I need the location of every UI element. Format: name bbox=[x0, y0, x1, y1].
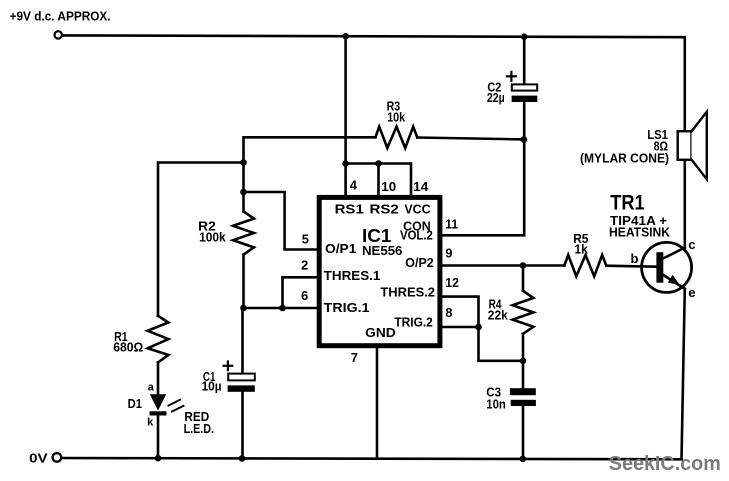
svg-text:4: 4 bbox=[350, 178, 358, 193]
IC labels bbox=[324, 202, 435, 340]
wire pin 9 to R5 bbox=[443, 264, 565, 267]
wire top rail bbox=[63, 35, 685, 131]
IC U1 body bbox=[319, 197, 440, 345]
label R3 bbox=[387, 99, 406, 125]
wire to left column bbox=[158, 163, 244, 316]
transistor TR1 bbox=[642, 242, 692, 292]
svg-text:k: k bbox=[147, 417, 154, 429]
wire C2 bottom to pin 11 bbox=[443, 102, 524, 235]
capacitor C1 bbox=[228, 374, 255, 381]
wire pin 12 branch bbox=[443, 297, 479, 327]
svg-text:D1: D1 bbox=[128, 396, 142, 411]
node supply bus at pin 10 bbox=[375, 160, 382, 167]
node pin9/R4 junction bbox=[520, 262, 527, 269]
wire pin 6 bbox=[244, 307, 319, 310]
wire R3 left and branch column bbox=[244, 137, 376, 211]
wire C3 top lead bbox=[522, 361, 525, 388]
wire C2 top lead bbox=[523, 37, 526, 85]
capacitor C2 bbox=[512, 84, 537, 90]
node R4/C3 junction bbox=[520, 358, 527, 365]
label R4 bbox=[488, 297, 509, 323]
svg-text:a: a bbox=[148, 381, 155, 393]
LED light rays bbox=[169, 400, 181, 406]
node top rail / IC supply column bbox=[342, 33, 349, 40]
svg-text:10µ: 10µ bbox=[202, 378, 222, 393]
svg-text:10k: 10k bbox=[387, 109, 406, 124]
wire C1 top lead bbox=[241, 308, 244, 374]
label R1 bbox=[113, 329, 143, 355]
svg-text:8: 8 bbox=[445, 305, 452, 320]
svg-text:10n: 10n bbox=[486, 396, 506, 411]
terminal +9V bbox=[55, 31, 62, 38]
svg-text:NE556: NE556 bbox=[362, 243, 402, 258]
node supply bus at pin 4 column bbox=[342, 160, 349, 167]
svg-text:THRES.1: THRES.1 bbox=[324, 268, 381, 283]
label LS1 bbox=[580, 127, 669, 165]
svg-text:e: e bbox=[688, 285, 695, 300]
svg-text:22k: 22k bbox=[488, 308, 509, 323]
label 0V bbox=[29, 451, 48, 466]
wire pin8/12 to C3 node bbox=[479, 327, 524, 361]
wire R4 top lead bbox=[522, 266, 525, 291]
wire emitter down to rail bbox=[682, 289, 685, 459]
plus sign C1 bbox=[224, 365, 233, 367]
svg-text:12: 12 bbox=[445, 275, 459, 290]
wire R1 to LED bbox=[157, 362, 160, 394]
capacitor C3 bbox=[510, 388, 536, 395]
svg-text:7: 7 bbox=[351, 350, 358, 365]
svg-text:TR1: TR1 bbox=[610, 191, 645, 214]
node R3/C2 junction bbox=[521, 136, 528, 143]
svg-text:(MYLAR CONE): (MYLAR CONE) bbox=[580, 150, 669, 165]
wire collector up to speaker bbox=[683, 160, 686, 248]
svg-text:100k: 100k bbox=[199, 229, 226, 244]
svg-text:0V: 0V bbox=[29, 451, 48, 466]
wire R4 bottom to C3 node bbox=[522, 334, 525, 361]
resistor R1 bbox=[148, 316, 169, 363]
svg-text:6: 6 bbox=[301, 288, 308, 303]
node pin8/pin12 junction bbox=[475, 324, 482, 331]
node C1/rail bbox=[239, 455, 246, 462]
svg-text:O/P2: O/P2 bbox=[405, 255, 433, 270]
svg-text:L.E.D.: L.E.D. bbox=[184, 421, 214, 436]
watermark bbox=[609, 453, 721, 475]
svg-text:+9V d.c. APPROX.: +9V d.c. APPROX. bbox=[10, 9, 111, 24]
wire bottom rail bbox=[62, 458, 682, 459]
svg-text:RS1: RS1 bbox=[335, 202, 364, 217]
svg-text:VCC: VCC bbox=[404, 202, 431, 217]
wire IC supply drop to pin 4 bbox=[344, 36, 347, 196]
label TR1 bbox=[609, 191, 696, 299]
label R2 bbox=[198, 218, 226, 244]
svg-text:VOL.2: VOL.2 bbox=[400, 228, 433, 243]
svg-text:5: 5 bbox=[302, 231, 309, 246]
wire R2 bottom to pin 6 node bbox=[242, 255, 245, 308]
label C1 bbox=[202, 369, 222, 393]
pin number labels bbox=[301, 178, 459, 365]
node pin2 branch bbox=[279, 305, 286, 312]
wire R5 to base bbox=[606, 266, 656, 267]
wire R3 right to C2 column bbox=[417, 138, 524, 140]
svg-text:22µ: 22µ bbox=[487, 90, 505, 105]
svg-text:RS2: RS2 bbox=[370, 202, 399, 217]
wire pin 2 branch bbox=[283, 277, 319, 308]
svg-text:10: 10 bbox=[381, 179, 396, 194]
wire LED to 0V rail bbox=[157, 416, 160, 459]
terminal 0V bbox=[53, 453, 62, 462]
wire pin 7 (GND) to rail bbox=[376, 346, 379, 459]
svg-text:THRES.2: THRES.2 bbox=[380, 285, 435, 300]
resistor R5 bbox=[564, 255, 606, 276]
label +9V supply bbox=[10, 9, 111, 24]
wire C1 bottom to rail bbox=[241, 392, 244, 459]
wire C3 bottom to rail bbox=[522, 406, 525, 459]
resistor R3 bbox=[375, 127, 417, 148]
svg-text:O/P1: O/P1 bbox=[325, 241, 356, 256]
svg-text:11: 11 bbox=[445, 217, 458, 232]
node left branch junction bbox=[240, 159, 247, 166]
node LED/rail bbox=[155, 455, 162, 462]
svg-text:1k: 1k bbox=[575, 242, 589, 257]
svg-text:9: 9 bbox=[445, 245, 452, 260]
svg-text:GND: GND bbox=[365, 325, 396, 340]
speaker LS1 bbox=[678, 131, 692, 160]
wire pin 10 stub bbox=[377, 164, 380, 197]
svg-text:HEATSINK: HEATSINK bbox=[609, 224, 671, 239]
svg-text:c: c bbox=[688, 237, 695, 252]
wire supply bus to pin 14 bbox=[346, 164, 411, 197]
node R2 top / pin 5 junction bbox=[240, 189, 247, 196]
svg-text:14: 14 bbox=[413, 179, 429, 194]
label C3 bbox=[486, 384, 506, 411]
svg-text:680Ω: 680Ω bbox=[113, 340, 143, 355]
label D1 bbox=[128, 381, 214, 435]
wire pin 8 bbox=[443, 326, 479, 329]
LED D1 bbox=[150, 394, 166, 410]
node pin6/C1 junction bbox=[240, 305, 247, 312]
svg-text:b: b bbox=[631, 251, 639, 266]
resistor R4 bbox=[513, 291, 534, 334]
svg-text:TRIG.1: TRIG.1 bbox=[324, 300, 370, 315]
resistor R2 bbox=[233, 211, 254, 254]
svg-text:SeekIC.com: SeekIC.com bbox=[609, 453, 721, 475]
svg-text:TRIG.2: TRIG.2 bbox=[394, 314, 432, 329]
label C2 bbox=[487, 80, 505, 105]
wire pin 5 connection bbox=[244, 192, 319, 250]
node top rail / C2 column bbox=[521, 33, 528, 40]
label R5 bbox=[573, 231, 588, 257]
node C3/rail bbox=[520, 456, 527, 463]
plus sign C2 bbox=[507, 75, 516, 77]
svg-text:2: 2 bbox=[301, 258, 308, 273]
